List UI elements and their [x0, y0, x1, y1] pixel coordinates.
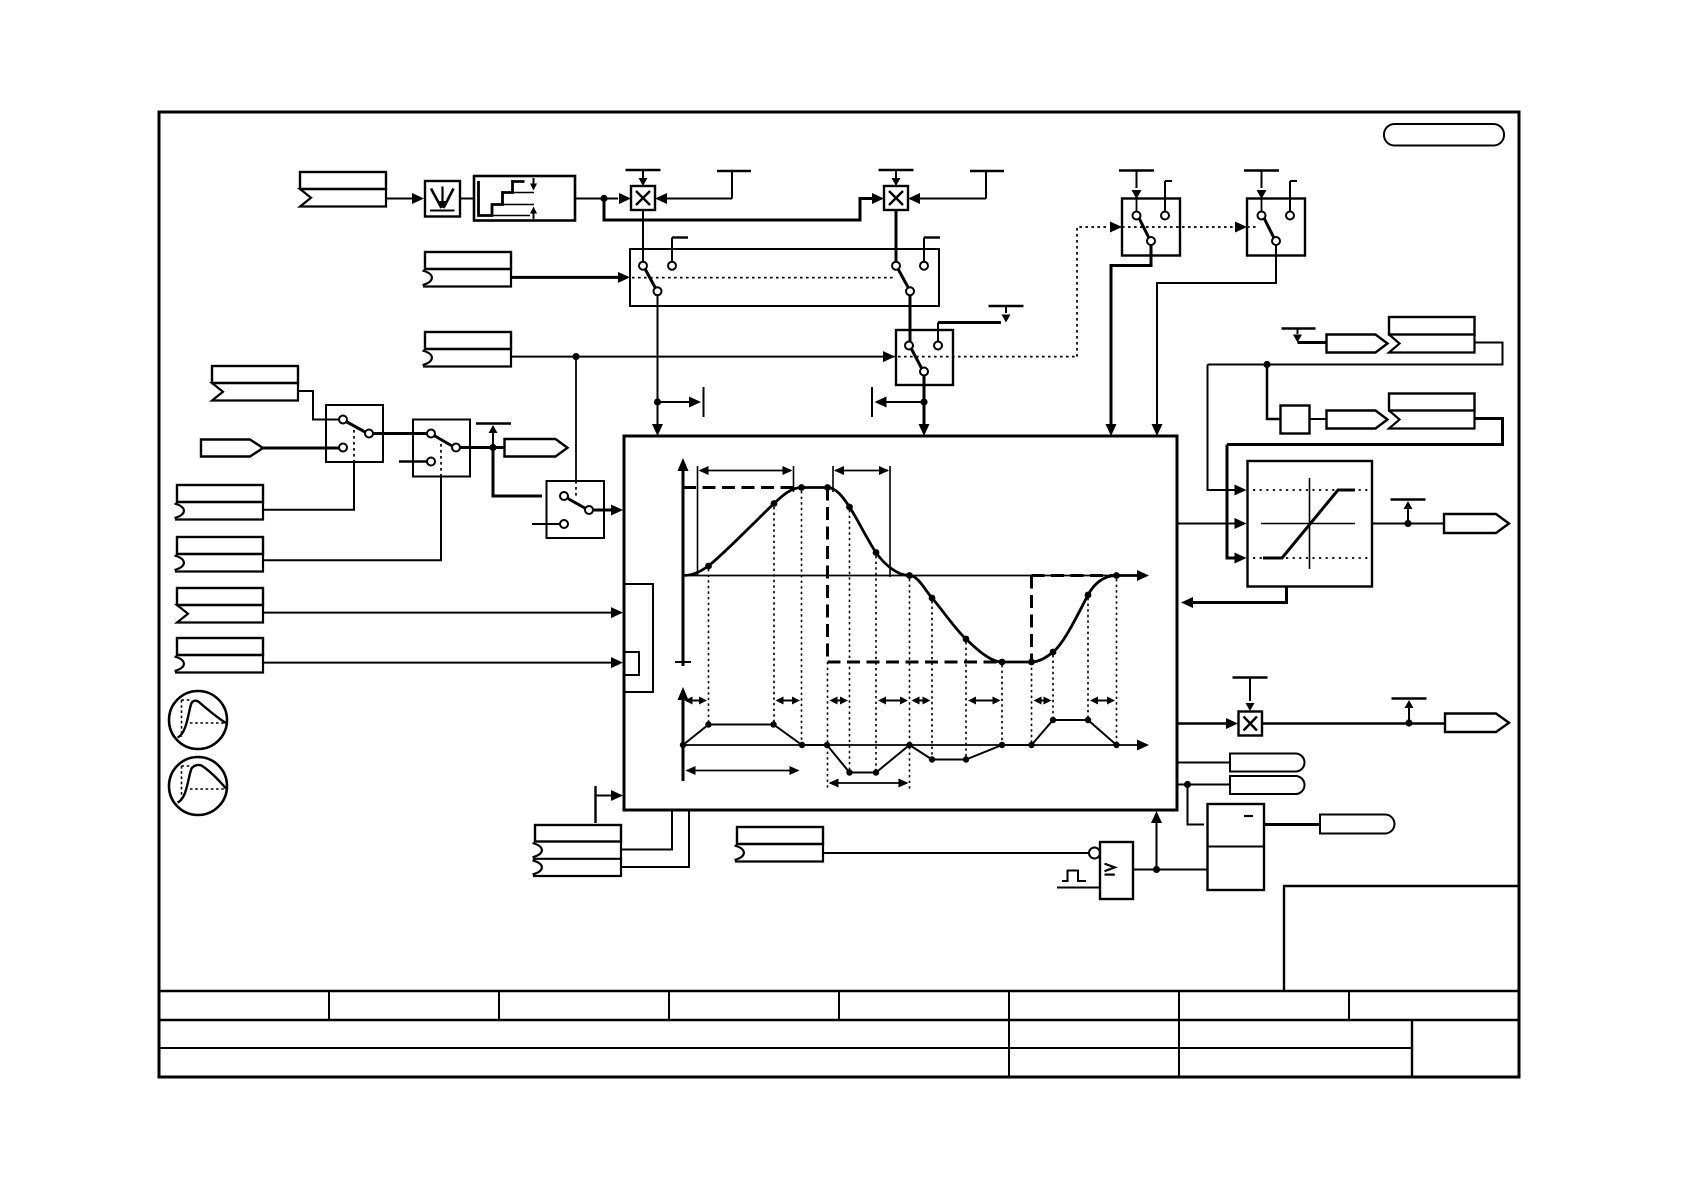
title strip row1 divider 5: [1008, 991, 1010, 1020]
limit wire upper: [1208, 365, 1236, 491]
title strip row line 3: [159, 1047, 1412, 1049]
wire X2 to switch W2: [895, 210, 898, 262]
title block box bottom right: [1284, 886, 1519, 991]
wire box to lens r1: [1177, 762, 1230, 764]
port rect tall on left edge: [624, 584, 653, 692]
control dotted A to B: [1122, 226, 1233, 228]
control dotted line in box W: [632, 277, 895, 279]
diagram number pill top right: [1384, 124, 1504, 146]
wire A to ramp box: [1111, 245, 1151, 425]
switch S1 lever: [346, 422, 366, 433]
switch W1 contacts: [639, 262, 647, 270]
wire box output to limiter: [1177, 523, 1235, 525]
wire box to multiplier X3: [1177, 722, 1226, 725]
dim delimiter t1 left: [697, 466, 699, 576]
rounding symbol circle 1: [169, 691, 227, 749]
wire square to pentagon P6: [1310, 418, 1328, 420]
minus sign in sub box: [1244, 815, 1253, 817]
title strip lower divider a: [1008, 1020, 1010, 1077]
r-flag 1: [1389, 317, 1475, 335]
title strip top line: [159, 990, 1519, 992]
wire flag C7 to comparator: [822, 852, 1089, 854]
param flag triple: [535, 825, 621, 842]
switch W1 post: [672, 236, 688, 238]
control dotted through S4: [886, 356, 1077, 358]
wire S1 control to flag C3: [263, 462, 354, 510]
wire triple flag row2 to box: [621, 810, 672, 850]
node on comparator output: [1153, 866, 1160, 873]
wire S2 node to S3: [493, 448, 542, 497]
output pentagon P2: [505, 439, 568, 457]
param T-bar above A: [1119, 169, 1154, 171]
control dotted inside B: [1247, 226, 1258, 228]
wire node to multiplier X2: [604, 199, 872, 221]
wire staircase to node: [575, 198, 604, 200]
switch B post: [1290, 180, 1297, 182]
title strip row line 2: [159, 1019, 1519, 1021]
control dotted S2: [440, 444, 442, 477]
wire r-flag1 to limiter input: [1208, 343, 1503, 365]
switch box S1: [326, 405, 383, 462]
wire node up to ramp box: [1156, 822, 1158, 870]
curve long-dash bottom level: [828, 661, 1003, 664]
port rect small on left edge: [624, 652, 639, 675]
stub into B pivot: [1261, 199, 1263, 212]
acceleration waveform: [683, 720, 1117, 773]
wire box to lens r2: [1177, 784, 1230, 786]
time dim arrow right of W1 wire: [658, 401, 691, 403]
node on lens r2 wire: [1184, 781, 1191, 788]
page border frame: [159, 112, 1519, 1077]
S4 selector post to param: [937, 323, 939, 342]
wire flag C6 to ramp box: [263, 662, 611, 664]
title strip row1 divider 1: [328, 991, 330, 1020]
monitor T-bar X3 output: [1392, 697, 1427, 699]
node on X3 output: [1405, 719, 1412, 726]
limit wire lower: [1227, 445, 1235, 559]
title strip row1 divider 7: [1348, 991, 1350, 1020]
switch S2 contacts: [427, 430, 435, 438]
wire triple flag row3 to box: [621, 810, 689, 867]
param feed right of X2: [970, 170, 1004, 172]
curve long-dash vertical 2: [1030, 576, 1033, 663]
input flag C7: [737, 827, 823, 844]
wire S2 output: [460, 446, 505, 449]
monitor lens r2: [1230, 776, 1305, 794]
upper plot y-axis minus tick: [675, 661, 691, 663]
control dotted S3: [575, 481, 577, 497]
wire param to pentagon P5: [1298, 341, 1328, 344]
input flag B1: [212, 366, 298, 383]
upper plot y-axis: [682, 468, 685, 666]
switch S3 lever: [567, 498, 587, 509]
param feed right of X1: [717, 170, 751, 172]
input flag B5: [177, 588, 263, 605]
node on S4 wire: [920, 398, 927, 405]
switch S4 lever: [911, 348, 923, 370]
switch box S4: [896, 330, 953, 385]
set-value tick bottom left: [594, 786, 596, 823]
switch B lever: [1264, 218, 1275, 239]
switch A post: [1165, 180, 1172, 182]
stub left of S2: [399, 460, 427, 462]
param T-bar above X3: [1233, 676, 1268, 678]
limiter axes: [1309, 478, 1311, 569]
wire flag C2 to S4: [510, 356, 883, 358]
r-flag 2: [1389, 394, 1475, 411]
param T-bar above X2: [879, 169, 914, 171]
wire node to multiplier X1: [604, 198, 618, 200]
s-ramp curve: [683, 488, 1141, 663]
title strip row1 divider 4: [838, 991, 840, 1020]
monitor T-bar at S2 node: [476, 422, 511, 424]
stub left of S3: [532, 523, 560, 525]
title strip row1 divider 2: [498, 991, 500, 1020]
two-row sub box: [1208, 804, 1265, 890]
control wire to S3: [575, 357, 577, 481]
multiplier X3: [1239, 712, 1263, 736]
switch box S3: [547, 481, 605, 538]
wire X1 to switch W1: [642, 210, 644, 262]
control dotted riser to switch A: [1077, 227, 1108, 357]
projection dotted verticals: [708, 569, 710, 722]
input flag C6: [177, 638, 263, 655]
dim delimiter t2 left: [832, 466, 834, 492]
param T-bar above X1: [626, 169, 661, 171]
monitor T-bar limiter output: [1391, 498, 1426, 500]
control dotted S1: [353, 430, 355, 462]
switch W2 contacts: [892, 262, 900, 270]
switch box A: [1122, 199, 1180, 256]
param T-bar for S4: [989, 305, 1024, 307]
wire flag B5 to ramp box: [263, 612, 611, 614]
wide switch box W: [630, 249, 939, 306]
wire S2 control to flag C4: [263, 477, 441, 561]
input flag C4: [177, 537, 263, 554]
node on limiter output: [1404, 520, 1411, 527]
input flag C3: [177, 485, 263, 502]
comparator input 2 wire: [1057, 887, 1100, 889]
limiter feedback wire: [1192, 587, 1287, 603]
wire B to ramp box: [1157, 245, 1276, 425]
wire S4 to ramp box: [923, 376, 926, 426]
jerk time double arrows: [692, 700, 701, 702]
dim delimiter t2 right: [889, 466, 891, 577]
limiter dotted lower: [1253, 557, 1368, 559]
slope-limiter block V symbol: [425, 181, 460, 217]
wire P1 to S1: [263, 447, 340, 450]
output pentagon P4: [1444, 514, 1509, 533]
dim arrow t-down: [835, 470, 888, 472]
input flag C2: [425, 332, 511, 349]
dim delimiter t1 right: [793, 466, 795, 492]
param T-bar above B: [1244, 169, 1279, 171]
switch W2 post: [924, 236, 940, 238]
input flag C1: [425, 252, 511, 269]
comparator box: [1100, 842, 1133, 899]
scaling square block: [1281, 406, 1310, 434]
staircase rounding block: [474, 176, 575, 221]
dim arrow t-up: [700, 470, 791, 472]
monitor lens r3: [1320, 815, 1395, 834]
multiplier X2: [884, 186, 908, 210]
comparator output wire: [1133, 869, 1208, 871]
wire r-flag2 to limiter lower input: [1227, 419, 1503, 445]
node on flag C2 wire: [572, 353, 579, 360]
wire flag to slope limiter: [386, 198, 412, 200]
wire node to scaling square: [1267, 365, 1281, 420]
title strip row1 divider 3: [668, 991, 670, 1020]
wire sub box to lens r3: [1264, 823, 1320, 826]
limiter output wire: [1372, 523, 1445, 525]
limiter box: [1248, 461, 1373, 587]
multiplier X1: [631, 186, 655, 210]
switch S2 lever: [434, 436, 453, 447]
wire W1 to ramp box: [657, 295, 659, 425]
output pentagon P3: [1445, 714, 1509, 733]
setpoint dash-dot level line: [683, 486, 799, 489]
output pentagon P6: [1327, 411, 1388, 429]
upper plot x-axis: [683, 575, 1140, 577]
title strip row1 divider 6: [1178, 991, 1180, 1020]
comparator >= label: [1105, 864, 1115, 872]
title strip lower divider b: [1178, 1020, 1180, 1077]
monitor lens r1: [1230, 754, 1305, 772]
rounding symbol circle 2: [169, 757, 227, 815]
wire flag C1 to switch box: [510, 276, 618, 279]
param T-bar chain 1: [1282, 327, 1316, 329]
input pentagon P1: [201, 440, 263, 457]
curve sample dots: [705, 563, 712, 570]
switch box S2: [413, 420, 470, 477]
dim arrow ramp-down time: [830, 782, 907, 784]
ramp generator box: [624, 436, 1177, 810]
comparator negation circle: [1089, 848, 1100, 859]
dim arrow ramp-up time: [687, 770, 798, 772]
wire S3 to ramp box: [593, 509, 611, 512]
stub into A pivot: [1136, 199, 1138, 212]
wire slope-limiter to staircase: [460, 198, 474, 200]
switch A contacts: [1133, 212, 1141, 220]
wire W2 to switch S4: [909, 295, 912, 342]
switch B contacts: [1258, 212, 1266, 220]
limiter characteristic: [1263, 490, 1355, 558]
curve long-dash vertical 1: [826, 488, 829, 663]
lower plot x-axis: [683, 744, 1140, 746]
switch S1 contacts: [339, 416, 347, 424]
curve long-dash axis level: [1032, 574, 1117, 577]
input flag B-top-left: [300, 172, 386, 189]
time dim arrow left of S4 wire: [886, 401, 924, 403]
node after staircase: [600, 195, 607, 202]
node on limit wire: [1263, 361, 1270, 368]
lower plot y-axis: [682, 697, 685, 781]
pulse glyph: [1062, 871, 1086, 882]
wire node down to sub box: [1188, 785, 1205, 825]
title strip tall cell divider: [1411, 1020, 1413, 1077]
switch box B: [1247, 199, 1305, 256]
wire flag B1 to S1: [298, 391, 340, 420]
switch W1 lever: [644, 267, 657, 290]
node on W1 wire: [654, 398, 661, 405]
limiter dotted upper: [1253, 489, 1368, 491]
switch W2 lever: [897, 267, 910, 290]
wire X3 to output pentagon: [1262, 722, 1445, 725]
switch S3 contacts: [560, 492, 568, 500]
node after S2: [489, 444, 496, 451]
waveform vertex dots: [680, 742, 686, 748]
switch S4 contacts: [905, 342, 913, 350]
wire S1 to S2: [373, 432, 428, 435]
output pentagon P5: [1327, 335, 1388, 353]
switch A lever: [1139, 218, 1150, 239]
